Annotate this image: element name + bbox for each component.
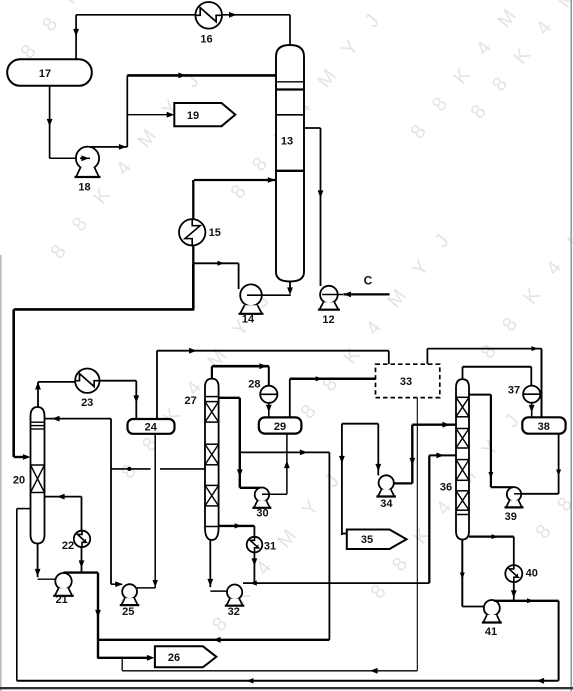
wire column 36 overhead to pump 37 [462, 367, 464, 379]
wire column 13 bottoms [289, 282, 291, 289]
wire pump 37 into vessel 38 [531, 403, 533, 418]
wire vessel 17 outlet to pump 18 [49, 86, 51, 159]
wire bottom heavy return line 1 [97, 639, 329, 641]
wire column 27 to exchanger 31 [219, 525, 255, 527]
pump 21 [55, 573, 71, 589]
wire pump 30 to vessel 29 bottom [286, 434, 288, 495]
svg-text:31: 31 [264, 540, 276, 552]
wire box 33 bottom line to flag 26 [416, 398, 418, 671]
wire exchanger 31 down to pump 32 line [253, 552, 255, 583]
wire pump 28 into vessel 29 [268, 403, 270, 418]
wire column 36 bottoms to pump 41 [461, 540, 463, 607]
wire branch line B to bottom [240, 451, 330, 453]
svg-text:32: 32 [228, 606, 240, 618]
wire box 33 top right to vessel 38 [426, 349, 428, 365]
column 13 [276, 45, 304, 282]
wire flag 26 feed [97, 657, 148, 659]
svg-text:35: 35 [361, 534, 373, 546]
wire column 27 overhead to pump 28 [211, 366, 213, 378]
svg-text:38: 38 [538, 421, 550, 433]
stream flag 19 [174, 103, 235, 126]
wire vessel 29 to box 33 [289, 379, 291, 418]
vessel 38 [522, 417, 565, 433]
pump 25 [122, 584, 137, 599]
wire stream C into pump 12 [343, 293, 389, 295]
wire column 20 top return line [45, 418, 112, 420]
wire vertical through exchanger 15 [192, 180, 194, 263]
wire junction to pump 14 [193, 262, 238, 264]
svg-text:22: 22 [62, 540, 74, 552]
wire pump 21 discharge heavy line down [64, 571, 99, 573]
svg-text:27: 27 [184, 395, 196, 407]
wire into pump 30 [240, 487, 261, 489]
svg-text:41: 41 [485, 626, 497, 638]
pump 30 [255, 488, 269, 502]
vessel 24 [128, 419, 175, 434]
svg-text:40: 40 [526, 567, 538, 579]
pump 39 [507, 487, 521, 501]
wire feed line into column 13 [194, 179, 276, 181]
pump 32 [227, 585, 242, 600]
wire column 27 vapour line down [219, 397, 240, 399]
wire top feed line into column 13 [127, 74, 276, 77]
svg-text:18: 18 [78, 182, 90, 194]
wire pump 34 discharge to column 36 [394, 482, 413, 484]
column 27 [205, 379, 219, 540]
wire pump 41 discharge [494, 600, 559, 602]
wire column 27 bottoms to pump 32 [209, 540, 211, 587]
svg-text:25: 25 [122, 606, 134, 618]
svg-text:29: 29 [274, 421, 286, 433]
page frame left edge [0, 255, 2, 691]
wire overhead line column 13 to condenser 16 [222, 14, 290, 16]
svg-text:36: 36 [440, 482, 452, 494]
svg-text:33: 33 [400, 376, 412, 388]
svg-text:16: 16 [200, 34, 212, 46]
svg-text:20: 20 [13, 474, 25, 486]
svg-text:30: 30 [256, 507, 268, 519]
wire pump 32 discharge to column 36 [243, 582, 429, 584]
svg-text:24: 24 [145, 422, 158, 434]
heat exchanger 16 (condenser) [195, 2, 222, 29]
svg-text:21: 21 [56, 594, 68, 606]
pump 12 [320, 286, 338, 304]
svg-text:12: 12 [322, 314, 334, 326]
wire inverted U to pump 34 and flag 35 [342, 423, 378, 425]
heat exchanger 40 [505, 565, 522, 582]
wire pump 39 reflux riser to column 36 [491, 486, 513, 488]
pump 14 [240, 284, 262, 306]
column 20 [31, 407, 45, 544]
column 36 [456, 379, 469, 539]
wire column 20 side line to bottom loop [17, 508, 31, 510]
svg-text:23: 23 [81, 397, 93, 409]
svg-text:17: 17 [39, 68, 51, 80]
wire exchanger 40 down to pump 41 discharge [513, 583, 515, 601]
wire line to stream flag 19 [127, 114, 170, 116]
wire column 20 bottoms to pump 21 [37, 544, 39, 578]
stream flag 35 [347, 530, 407, 550]
vessel 29 [259, 417, 302, 433]
heat exchanger 23 [75, 369, 99, 393]
page frame right edge [570, 0, 572, 691]
pump 37 [523, 386, 540, 403]
svg-text:26: 26 [168, 652, 180, 664]
wire bottom-most loop line [17, 680, 559, 682]
svg-text:39: 39 [505, 511, 517, 523]
wire branch feed to column 27 [111, 468, 151, 470]
control box 33 [376, 364, 440, 397]
svg-text:14: 14 [242, 314, 255, 326]
svg-text:15: 15 [209, 227, 221, 239]
svg-text:28: 28 [248, 378, 260, 390]
page frame bottom edge [0, 687, 573, 689]
heat exchanger 15 [179, 219, 205, 245]
pump 41 [484, 600, 500, 616]
svg-text:C: C [364, 274, 373, 288]
svg-text:34: 34 [380, 498, 393, 510]
pump 28 [260, 386, 277, 403]
wire vessel 38 bottoms to pump 39 [558, 434, 560, 494]
wire exchanger 22 to pump 21 discharge line [81, 546, 83, 572]
wire heavy line to column 20 feed [192, 263, 195, 309]
wire pump 18 discharge riser [90, 146, 127, 148]
svg-text:19: 19 [187, 110, 199, 122]
wire column 13 side draw to pump 12 [304, 127, 321, 129]
wire column 20 overhead to exchanger 23 [37, 382, 39, 407]
wire vessel 24 riser and long top line to box 33 [156, 351, 158, 419]
svg-text:13: 13 [281, 136, 293, 148]
stream flag 26 [155, 646, 217, 667]
heat exchanger 31 [247, 537, 263, 553]
pump 34 [379, 475, 394, 490]
wire pump 25 riser [110, 419, 112, 585]
pump 18 [76, 147, 99, 170]
wire column 36 to exchanger 40 [469, 535, 514, 537]
vessel 17 (reflux drum) [7, 59, 92, 86]
wire exchanger 23 to vessel 24 [100, 380, 137, 382]
heat exchanger 22 [74, 531, 90, 547]
wire column 20 reflux via exchanger 22 [45, 496, 82, 498]
wire vessel 24 bottoms to pump 25 [154, 434, 156, 588]
svg-text:37: 37 [508, 385, 520, 397]
